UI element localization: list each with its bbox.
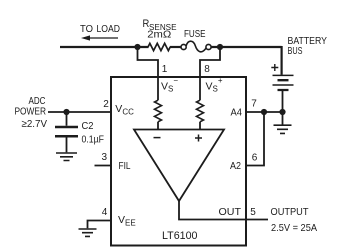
wire: VS+ pin 8 internal lead — [199, 77, 201, 100]
wire: op-amp output to OUT pin 5 stub — [179, 201, 268, 220]
wire: pin 1 tap from rail into IC VS- — [138, 47, 159, 77]
fuse F1 body S-curve — [186, 41, 206, 52]
wire: battery negative to ground junction — [282, 91, 284, 112]
ground symbol below C2 — [56, 153, 77, 161]
svg-text:FIL: FIL — [119, 160, 131, 172]
svg-text:C2: C2 — [82, 120, 94, 132]
wire: R_SENSE to fuse — [170, 46, 181, 48]
resistor internal left (VS- input) — [155, 100, 162, 122]
fuse F1 right terminal circle — [206, 44, 211, 49]
IC U1 LT6100 body outline — [111, 77, 246, 246]
wire: battery minus junction down to ground — [282, 112, 284, 125]
svg-text:6: 6 — [252, 152, 258, 163]
svg-text:LOAD: LOAD — [97, 23, 121, 35]
junction node battery minus — [279, 109, 285, 115]
op-amp non-inverting input plus sign — [195, 135, 202, 142]
svg-text:2mΩ: 2mΩ — [147, 29, 171, 41]
svg-text:VEE: VEE — [118, 214, 136, 228]
svg-text:5: 5 — [250, 207, 256, 218]
fuse F1 left terminal circle — [181, 44, 186, 49]
svg-text:1: 1 — [162, 64, 168, 75]
pin 4 VEE stub to ground — [88, 221, 112, 229]
ground symbol at VEE pin 4 — [79, 229, 97, 236]
pin 3 FIL stub — [95, 165, 112, 167]
wire: VS- pin 1 internal lead — [157, 77, 159, 100]
svg-text:3: 3 — [102, 152, 108, 163]
wire: top battery bus rail left segment to R_SENSE — [60, 46, 149, 48]
battery B1 cells — [273, 75, 294, 90]
svg-text:≥2.7V: ≥2.7V — [22, 118, 48, 130]
svg-text:FUSE: FUSE — [184, 28, 206, 40]
op-amp A1 triangle — [134, 130, 224, 202]
battery plus sign — [271, 64, 278, 71]
wire: left resistor to op-amp — [157, 122, 159, 129]
svg-text:2: 2 — [103, 99, 109, 110]
arrow to load — [81, 35, 118, 40]
svg-text:2.5V = 25A: 2.5V = 25A — [271, 222, 317, 234]
wire: right resistor to op-amp — [199, 122, 201, 129]
svg-text:A2: A2 — [230, 160, 241, 172]
capacitor C2 — [55, 112, 78, 152]
svg-text:7: 7 — [251, 99, 257, 110]
wire: ADC power to VCC pin 2 — [48, 111, 111, 113]
wire: fuse to battery corner — [211, 46, 282, 75]
wire: A4 pin 7 to battery minus net — [246, 111, 283, 113]
junction node at R_SENSE left / pin 1 tap — [134, 44, 140, 50]
svg-text:BUS: BUS — [288, 45, 303, 57]
ground symbol at battery bus — [274, 125, 292, 133]
svg-text:VS−: VS− — [161, 76, 178, 94]
svg-text:4: 4 — [102, 207, 108, 218]
svg-text:VCC: VCC — [115, 103, 134, 117]
svg-text:LT6100: LT6100 — [162, 230, 198, 242]
junction node at C2 tap — [63, 109, 69, 115]
svg-text:OUTPUT: OUTPUT — [271, 206, 310, 218]
svg-text:POWER: POWER — [15, 106, 47, 118]
resistor internal right (VS+ input) — [197, 100, 204, 122]
junction node pin6 riser on A4 net — [261, 109, 267, 115]
resistor R_SENSE zigzag — [148, 43, 170, 50]
op-amp inverting input minus sign — [154, 137, 161, 139]
wire: pin 8 tap from rail into IC VS+ — [200, 47, 220, 77]
svg-text:OUT: OUT — [219, 206, 242, 218]
junction node at fuse right / pin 8 tap — [217, 44, 223, 50]
pin 6 A2 stub and riser to A4 net — [246, 112, 264, 166]
svg-text:8: 8 — [204, 64, 210, 75]
svg-text:0.1µF: 0.1µF — [82, 134, 105, 146]
svg-text:TO: TO — [80, 23, 93, 35]
svg-text:VS+: VS+ — [206, 76, 223, 94]
svg-text:A4: A4 — [231, 107, 243, 119]
